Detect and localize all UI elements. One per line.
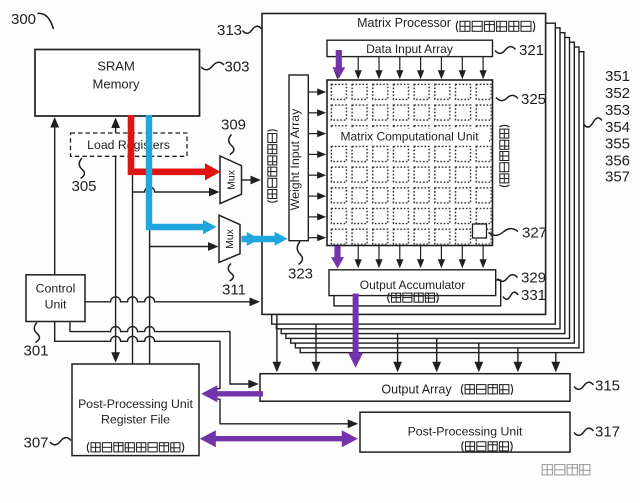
wire Load Registers up to SRAM [115,125,117,133]
svg-text:Mux: Mux [226,169,238,190]
svg-text:307: 307 [23,435,48,452]
svg-text:315: 315 [595,378,620,395]
svg-text:Mux: Mux [224,228,236,249]
wire Control Unit to Output Array (3 hops) [70,322,251,385]
svg-text:300: 300 [11,11,36,28]
box Matrix Processor 313 [262,14,546,315]
svg-text:357: 357 [605,169,630,186]
svg-text:313: 313 [217,22,242,39]
box Output Array 315 [260,374,570,402]
svg-text:Unit: Unit [45,298,67,312]
annotation chinese (matrix computational unit) rotated [499,125,509,186]
svg-text:309: 309 [221,117,246,134]
svg-text:Post-Processing Unit: Post-Processing Unit [78,397,193,411]
purple arrow Output Accumulator down to Output Array [353,294,359,355]
svg-text:354: 354 [605,119,630,136]
cyan arrow SRAM to Mux 311 [149,115,203,227]
red arrow SRAM to Mux 309 [131,115,207,172]
wire branch to Mux 309 lower input (hop over x=149.6) [133,187,212,192]
wires sheet drops into Output Array [276,314,278,364]
annotation chinese (post-processor register file) [87,442,183,452]
wire bus x=132.5 (under red) down to Register File [132,119,134,364]
box Load Registers 305 (dashed) [71,133,188,156]
wire Mux 309 output into Matrix Processor [242,179,254,181]
svg-text:327: 327 [522,225,547,242]
svg-text:321: 321 [519,42,544,59]
arrows Weight Input Array into Matrix Unit (8) [308,91,319,93]
svg-text:331: 331 [521,287,546,304]
svg-text:301: 301 [23,343,48,360]
svg-text:Matrix Computational Unit: Matrix Computational Unit [340,130,479,144]
svg-text:303: 303 [224,59,249,76]
svg-text:329: 329 [521,270,546,287]
svg-text:Register File: Register File [101,413,170,427]
box Post-Processing Unit Register File 307 [72,364,199,456]
svg-text:305: 305 [71,178,96,195]
svg-text:Post-Processing Unit: Post-Processing Unit [408,425,523,439]
purple arrow Data Input Array into Matrix Unit [336,50,342,70]
purple arrow Matrix Unit into Output Accumulator [334,246,340,259]
watermark chenweitanxin [542,465,590,475]
svg-text:352: 352 [605,85,630,102]
svg-text:317: 317 [595,424,620,441]
box Control Unit 301 [26,275,85,322]
box SRAM Memory 303 [35,50,200,117]
purple double arrow Register File and Post-Processing Unit [216,436,344,441]
svg-text:Memory: Memory [93,77,140,92]
svg-text:SRAM: SRAM [97,59,135,74]
stacked sheets 351-357 behind Matrix Processor [300,52,584,353]
cell box 327 [473,224,487,238]
svg-text:325: 325 [521,91,546,108]
mux 311 trapezoid [219,215,240,262]
box Output Accumulator 329 [329,270,496,296]
svg-text:Weight Input Array: Weight Input Array [288,108,302,211]
annotation chinese (output accumulate) [388,293,438,303]
svg-text:323: 323 [288,266,313,283]
arrows Data Input Array into Matrix Unit (8) [336,57,338,73]
svg-text:311: 311 [222,282,246,299]
annotation chinese (post-processor) [462,441,512,451]
svg-text:351: 351 [605,68,630,85]
svg-text:Output Array: Output Array [381,382,452,396]
box Post-Processing Unit 317 [360,412,570,452]
svg-text:Data Input Array: Data Input Array [366,42,453,56]
box Data Input Array 321 [327,40,493,56]
box Weight Input Array [289,75,308,241]
svg-text:355: 355 [605,136,630,153]
box Output Accumulator shadow 331 [334,280,501,306]
annotation chinese (output array) [461,384,512,395]
purple arrow Output Array to Register File [216,391,263,396]
annotation chinese (data input array) [456,21,534,32]
mux 309 trapezoid [220,156,242,204]
wire Control Unit right to Matrix Processor (3 hops) [85,297,252,302]
svg-text:Matrix Processor: Matrix Processor [357,16,451,30]
svg-text:Output Accumulator: Output Accumulator [360,278,465,292]
brace squiggle for 351-357 [584,118,602,127]
svg-text:356: 356 [605,153,630,170]
wire bus x=149.6 (under cyan) down to Register File [149,119,151,364]
annotation chinese (weight input array) rotated [267,130,277,202]
cyan arrow Mux 311 output to Weight Input Array (two heads) [242,236,277,242]
wire SRAM to Control Unit vertical [54,125,56,275]
wire Load Registers down to Register File [115,156,117,355]
wire branch to Mux 311 lower input [150,246,211,248]
wire Control Unit to Post-Processing Unit (3 hops + hop over purple) [55,322,350,424]
svg-text:353: 353 [605,102,630,119]
svg-text:Control: Control [36,282,76,296]
